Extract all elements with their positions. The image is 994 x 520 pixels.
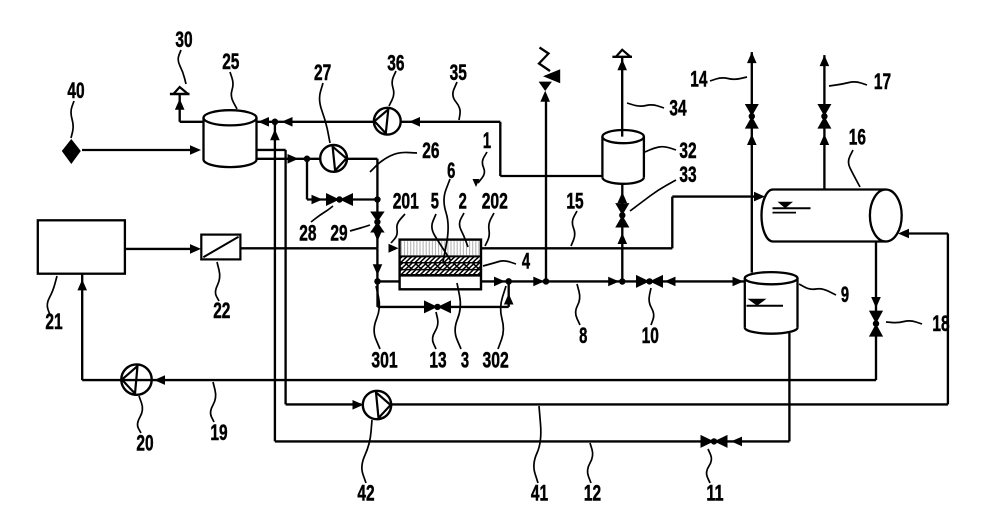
svg-text:30: 30 — [175, 27, 192, 52]
svg-text:33: 33 — [679, 162, 696, 187]
svg-text:14: 14 — [690, 66, 707, 91]
svg-text:42: 42 — [357, 481, 374, 506]
svg-text:302: 302 — [483, 348, 509, 373]
svg-text:27: 27 — [314, 60, 331, 85]
svg-text:21: 21 — [45, 309, 62, 334]
svg-text:22: 22 — [213, 298, 230, 323]
svg-text:25: 25 — [222, 49, 239, 74]
svg-text:40: 40 — [67, 78, 84, 103]
svg-text:301: 301 — [371, 348, 397, 373]
svg-text:26: 26 — [422, 138, 439, 163]
svg-text:29: 29 — [330, 221, 347, 246]
svg-text:2: 2 — [459, 189, 467, 214]
svg-text:5: 5 — [431, 189, 439, 214]
svg-text:202: 202 — [482, 189, 508, 214]
svg-text:12: 12 — [584, 481, 601, 506]
svg-text:13: 13 — [429, 348, 446, 373]
svg-text:41: 41 — [531, 481, 548, 506]
svg-text:28: 28 — [299, 221, 316, 246]
svg-text:6: 6 — [447, 158, 455, 183]
svg-text:20: 20 — [136, 431, 153, 456]
svg-text:11: 11 — [706, 481, 723, 506]
svg-text:15: 15 — [566, 189, 583, 214]
svg-text:32: 32 — [679, 138, 696, 163]
svg-text:1: 1 — [483, 128, 491, 153]
svg-text:10: 10 — [642, 323, 659, 348]
svg-text:34: 34 — [669, 95, 686, 120]
svg-text:16: 16 — [849, 124, 866, 149]
svg-text:18: 18 — [932, 311, 949, 336]
svg-text:8: 8 — [579, 323, 587, 348]
svg-text:17: 17 — [874, 69, 891, 94]
svg-text:4: 4 — [522, 249, 530, 274]
svg-text:201: 201 — [393, 189, 419, 214]
svg-text:35: 35 — [450, 60, 467, 85]
svg-text:9: 9 — [841, 282, 849, 307]
svg-text:3: 3 — [461, 348, 469, 373]
svg-text:19: 19 — [210, 420, 227, 445]
